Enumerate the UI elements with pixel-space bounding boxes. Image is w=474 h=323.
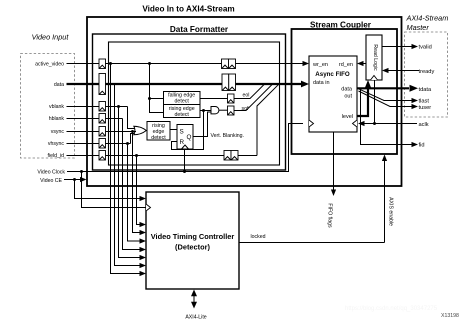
- svg-text:tlast: tlast: [419, 99, 430, 105]
- falling edge detect box: [164, 92, 201, 105]
- svg-text:active_video: active_video: [35, 62, 64, 68]
- register sof: [228, 106, 235, 115]
- svg-text:vhsync: vhsync: [48, 141, 65, 147]
- svg-text:tdata: tdata: [419, 87, 432, 93]
- svg-text:detect: detect: [174, 112, 189, 118]
- arrow into VTC hblank: [140, 247, 147, 252]
- VTC clock wedge: [146, 204, 151, 211]
- svg-text:Async FIFO: Async FIFO: [315, 71, 350, 78]
- svg-text:data: data: [54, 82, 64, 88]
- node vhsync VTC tap: [126, 142, 129, 145]
- wire vhsync up to OR gate: [131, 134, 135, 144]
- node video clock to SR clock: [183, 170, 186, 173]
- wire video clock down to VTC wedge: [82, 172, 147, 208]
- wire rd_en from Read Logic to FIFO: [363, 63, 367, 65]
- svg-text:wr_en: wr_en: [312, 62, 328, 68]
- svg-text:AXI4-Lite: AXI4-Lite: [185, 315, 206, 321]
- wire active_video VTC drop: [111, 64, 141, 274]
- node video clock to VTC: [80, 170, 83, 173]
- wire data VTC drop: [115, 84, 141, 266]
- register field_id: [99, 151, 106, 161]
- double register data (bus): [222, 74, 236, 91]
- wire vsync row: [67, 131, 137, 133]
- arrow into VTC vsync: [140, 230, 147, 235]
- node vsync VTC tap: [131, 130, 134, 133]
- wire aclk: [363, 123, 417, 125]
- svg-text:fid: fid: [419, 143, 425, 149]
- svg-text:Video Clock: Video Clock: [37, 170, 65, 176]
- svg-text:R: R: [180, 139, 185, 146]
- wire sof diagonal to data bus: [234, 84, 272, 110]
- FIFO right clock wedge: [353, 120, 358, 127]
- arrow tready into Read Logic: [382, 68, 389, 73]
- node active_video to edge detectors: [148, 62, 151, 65]
- wire falling edge detect output to eol register: [200, 98, 228, 100]
- svg-text:Video In to AXI4-Stream: Video In to AXI4-Stream: [142, 5, 234, 14]
- svg-text:vsync: vsync: [51, 129, 65, 135]
- wire vsync VTC drop: [133, 132, 141, 233]
- svg-text:field_id: field_id: [48, 153, 65, 159]
- svg-text:Video CE: Video CE: [40, 178, 62, 184]
- svg-text:Q: Q: [187, 134, 192, 141]
- arrow into FIFO wr_en: [303, 61, 310, 66]
- AND gate sof: [211, 107, 219, 114]
- wire vblank row: [67, 106, 128, 108]
- arrow into VTC vhsync: [140, 238, 147, 243]
- node aclk to read logic: [373, 122, 376, 125]
- wire vhsync row: [67, 143, 131, 145]
- FIFO left clock wedge: [309, 120, 314, 127]
- arrow rd_en into FIFO: [357, 61, 364, 66]
- wire field_id rise and diagonal to data bus: [257, 84, 279, 155]
- Video Timing Controller box: [146, 192, 239, 289]
- node detector bracket junction: [148, 97, 151, 100]
- svg-text:(Detector): (Detector): [175, 243, 210, 252]
- svg-text:FIFO flags: FIFO flags: [327, 203, 333, 228]
- arrow tuser: [412, 104, 419, 109]
- wire junction down to SR reset wrap: [172, 111, 204, 150]
- wire Q output to AND gate: [193, 112, 212, 137]
- svg-text:Vert. Blanking.: Vert. Blanking.: [211, 133, 244, 139]
- double register active_video: [222, 59, 236, 69]
- outer box Video In to AXI4-Stream: [87, 17, 402, 186]
- wire OR output to rising edge detect: [146, 130, 147, 132]
- register vhsync: [99, 139, 106, 149]
- wire fid from data out bus: [361, 88, 412, 144]
- wire tdata bus from FIFO data out: [357, 87, 409, 89]
- arrow into VTC field_id: [140, 222, 147, 227]
- wire level bus to Read Logic: [357, 86, 368, 116]
- svg-text:Video Input: Video Input: [32, 33, 70, 42]
- svg-text:hblank: hblank: [49, 116, 65, 122]
- wire video clock line: [67, 124, 303, 172]
- Read Logic box: [366, 35, 382, 80]
- wire rising edge to S input: [170, 129, 177, 131]
- wire tready: [389, 70, 420, 72]
- register eol: [228, 94, 235, 103]
- register vblank: [99, 102, 106, 112]
- wire locked output: [239, 242, 385, 244]
- svg-text:out: out: [344, 94, 352, 100]
- rising edge detect box (vsync path): [147, 122, 170, 141]
- arrow into VTC data: [140, 263, 147, 268]
- wire tvalid: [382, 46, 412, 48]
- node field_id VTC tap: [135, 154, 138, 157]
- svg-text:S: S: [180, 129, 184, 136]
- svg-text:X13198: X13198: [441, 313, 459, 319]
- register active_video: [99, 59, 106, 69]
- arrow aclk into FIFO right wedge: [358, 121, 365, 126]
- AXI4-Lite double arrow: [193, 295, 195, 304]
- svg-text:Read Logic: Read Logic: [372, 44, 378, 71]
- svg-text:data: data: [341, 87, 353, 93]
- svg-text:eol: eol: [243, 93, 250, 99]
- svg-text:Stream Coupler: Stream Coupler: [310, 21, 372, 30]
- node vblank VTC tap: [117, 105, 120, 108]
- wire tuser diagonal split: [359, 91, 412, 107]
- wire vblank VTC drop: [119, 107, 141, 258]
- svg-text:data in: data in: [313, 80, 330, 86]
- Read Logic clock wedge: [371, 76, 378, 81]
- wire SR clock feed from video clock: [184, 149, 186, 172]
- wire vblank descent to OR gate: [128, 107, 135, 129]
- wire data row (bus): [67, 83, 303, 85]
- Stream Coupler box: [292, 29, 398, 154]
- video input dashed box: [21, 54, 75, 159]
- wire hblank row: [67, 118, 123, 120]
- svg-text:vblank: vblank: [49, 104, 64, 110]
- svg-text:tready: tready: [419, 69, 435, 75]
- wire aclk up to Read Logic wedge: [374, 80, 376, 124]
- wire video CE line: [64, 179, 80, 181]
- arrow into VTC vblank: [140, 255, 147, 260]
- arrow FIFO flags: [331, 190, 336, 197]
- svg-text:Video Timing Controller: Video Timing Controller: [151, 232, 235, 241]
- svg-text:locked: locked: [251, 234, 266, 240]
- Async FIFO box: [309, 56, 357, 132]
- wire FIFO flags down: [333, 133, 335, 191]
- svg-text:detect: detect: [174, 99, 189, 105]
- arrow video CE into outer box: [80, 177, 87, 182]
- wire field_id row: [67, 155, 258, 157]
- wire active_video down to detector bracket: [150, 64, 164, 113]
- register vsync: [99, 127, 106, 137]
- SR flip-flop: [177, 125, 193, 150]
- wire video CE down to VTC: [75, 180, 141, 199]
- double register field_id: [224, 151, 238, 161]
- svg-text:level: level: [342, 114, 353, 120]
- wire hblank VTC drop: [123, 119, 141, 250]
- OR gate vsync/vhsync/vblank: [134, 126, 147, 135]
- svg-text:aclk: aclk: [419, 122, 429, 128]
- arrow AXIS enable into SC: [382, 155, 387, 162]
- rising edge detect box (stacked): [164, 105, 201, 118]
- register data (bus): [99, 74, 106, 95]
- arrow tvalid: [412, 44, 419, 49]
- wire field_id VTC drop: [137, 156, 141, 225]
- arrow into VTC active_video: [140, 271, 147, 276]
- node rising edge output junction: [202, 109, 205, 112]
- svg-text:detect: detect: [151, 135, 166, 141]
- wire vhsync VTC drop: [128, 144, 141, 242]
- svg-text:https://blog.csdn.net/qq_30347: https://blog.csdn.net/qq_30347275: [345, 306, 438, 312]
- node active_video VTC tap: [109, 62, 112, 65]
- arrow into VTC ce: [140, 196, 147, 201]
- svg-text:Master: Master: [407, 23, 430, 32]
- wire AXIS enable up into Stream Coupler: [384, 159, 386, 243]
- svg-text:tvalid: tvalid: [419, 45, 432, 51]
- arrow tlast: [412, 98, 419, 103]
- node video CE to VTC: [73, 178, 76, 181]
- wire active_video row: [67, 63, 304, 65]
- AXI4-Stream master dashed box: [405, 32, 448, 117]
- wire rising edge detect output: [200, 110, 211, 112]
- Data Formatter box: [93, 34, 286, 170]
- svg-text:AXI4-Stream: AXI4-Stream: [406, 14, 449, 23]
- arrow tdata: [410, 85, 419, 92]
- inner clock-domain box: [109, 42, 280, 165]
- arrow into FIFO data in (bus): [301, 81, 309, 88]
- wire tlast diagonal split: [358, 89, 412, 101]
- svg-text:rd_en: rd_en: [339, 62, 353, 68]
- svg-text:AXIS enable: AXIS enable: [388, 197, 394, 226]
- wire AND output to sof register: [219, 109, 228, 111]
- arrow level into Read Logic: [365, 80, 371, 88]
- register hblank: [99, 114, 106, 124]
- svg-text:Data Formatter: Data Formatter: [170, 25, 229, 34]
- wire eol diagonal to data bus: [234, 84, 264, 98]
- arrow fid: [412, 142, 419, 147]
- svg-text:tuser: tuser: [419, 105, 432, 111]
